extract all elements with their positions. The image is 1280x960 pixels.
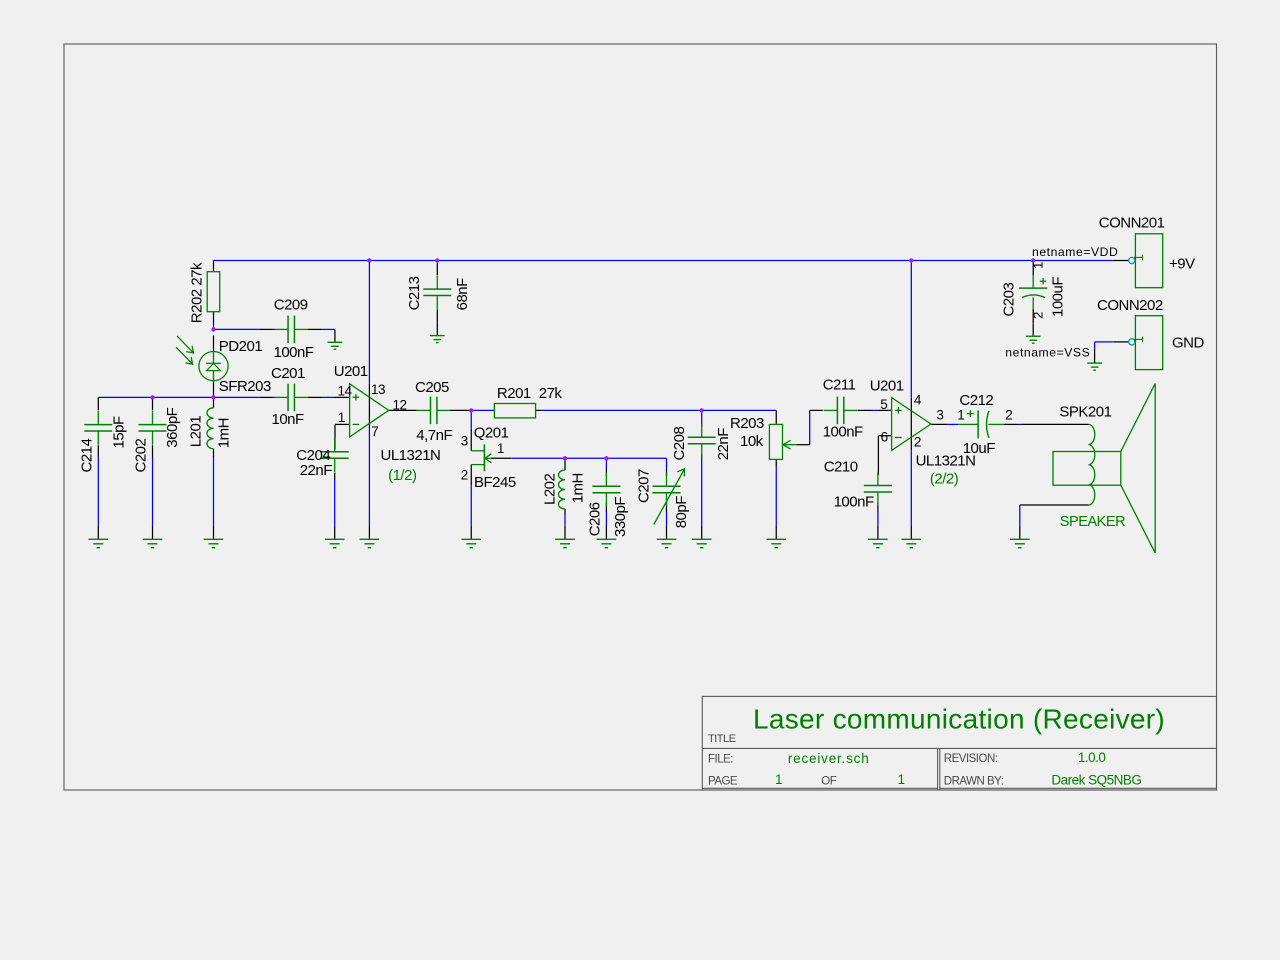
svg-text:100nF: 100nF (274, 344, 314, 361)
svg-text:Q201: Q201 (474, 424, 509, 441)
svg-text:1mH: 1mH (570, 473, 587, 503)
svg-text:7: 7 (371, 424, 378, 439)
svg-text:22nF: 22nF (300, 462, 333, 479)
svg-text:1: 1 (497, 441, 504, 456)
svg-text:330pF: 330pF (612, 497, 629, 537)
svg-text:CONN201: CONN201 (1099, 215, 1165, 232)
svg-text:100nF: 100nF (834, 494, 874, 511)
svg-text:+9V: +9V (1169, 256, 1195, 273)
svg-text:R202 27k: R202 27k (189, 262, 206, 323)
svg-text:12: 12 (393, 397, 407, 412)
svg-text:80pF: 80pF (673, 496, 690, 529)
svg-text:1: 1 (957, 407, 964, 422)
svg-text:10nF: 10nF (272, 411, 305, 428)
svg-text:C207: C207 (635, 469, 652, 503)
svg-text:15pF: 15pF (111, 416, 128, 449)
svg-text:68nF: 68nF (454, 278, 471, 311)
svg-text:GND: GND (1172, 335, 1205, 352)
svg-text:CONN202: CONN202 (1097, 297, 1163, 314)
svg-text:(2/2): (2/2) (930, 471, 959, 488)
svg-text:4,7nF: 4,7nF (416, 427, 452, 444)
svg-text:R203: R203 (730, 415, 764, 432)
svg-text:TITLE: TITLE (708, 733, 736, 745)
svg-text:3: 3 (461, 433, 468, 448)
svg-text:BF245: BF245 (474, 474, 516, 491)
svg-text:(1/2): (1/2) (388, 467, 417, 484)
svg-text:C208: C208 (671, 426, 688, 460)
svg-text:2: 2 (461, 467, 468, 482)
svg-text:2: 2 (1005, 408, 1012, 423)
svg-text:FILE:: FILE: (708, 753, 733, 765)
svg-text:3: 3 (936, 408, 943, 423)
svg-text:OF: OF (821, 775, 836, 787)
svg-text:L202: L202 (542, 473, 559, 505)
svg-text:1: 1 (898, 772, 905, 787)
svg-text:PAGE: PAGE (708, 775, 738, 787)
svg-text:receiver.sch: receiver.sch (788, 751, 870, 766)
svg-text:10uF: 10uF (963, 440, 996, 457)
svg-text:2: 2 (1031, 312, 1046, 319)
svg-text:SFR203: SFR203 (219, 378, 271, 395)
svg-text:C201: C201 (271, 365, 305, 382)
svg-text:C212: C212 (959, 392, 993, 409)
svg-text:C205: C205 (415, 379, 449, 396)
svg-text:R201: R201 (497, 385, 531, 402)
svg-text:Darek SQ5NBG: Darek SQ5NBG (1051, 773, 1141, 788)
svg-text:C209: C209 (274, 297, 308, 314)
svg-text:1.0.0: 1.0.0 (1078, 750, 1106, 765)
svg-text:PD201: PD201 (219, 338, 263, 355)
svg-text:SPEAKER: SPEAKER (1060, 514, 1125, 530)
svg-text:DRAWN BY:: DRAWN BY: (944, 775, 1004, 787)
svg-text:1: 1 (1131, 254, 1146, 261)
svg-text:C206: C206 (587, 502, 604, 536)
svg-text:C211: C211 (823, 377, 856, 394)
svg-text:C214: C214 (79, 438, 96, 472)
svg-text:100uF: 100uF (1050, 277, 1067, 317)
svg-text:100nF: 100nF (823, 424, 863, 441)
svg-text:4: 4 (914, 392, 922, 407)
svg-text:5: 5 (880, 397, 887, 412)
svg-text:13: 13 (371, 382, 385, 397)
svg-text:C203: C203 (1001, 282, 1018, 316)
svg-text:L201: L201 (188, 416, 205, 448)
svg-text:netname=VDD: netname=VDD (1032, 245, 1118, 259)
svg-text:C202: C202 (132, 438, 149, 472)
svg-text:REVISION:: REVISION: (944, 753, 998, 765)
svg-text:netname=VSS: netname=VSS (1005, 346, 1090, 360)
svg-text:U201: U201 (870, 377, 904, 394)
svg-text:360pF: 360pF (164, 407, 181, 447)
svg-text:1: 1 (338, 410, 345, 425)
svg-text:C210: C210 (824, 459, 858, 476)
svg-text:1: 1 (1131, 336, 1146, 343)
svg-text:U201: U201 (334, 363, 368, 380)
svg-text:1mH: 1mH (216, 418, 233, 448)
svg-text:SPK201: SPK201 (1059, 404, 1111, 421)
svg-text:14: 14 (338, 383, 353, 398)
svg-text:27k: 27k (539, 385, 563, 402)
svg-text:Laser communication (Receiver): Laser communication (Receiver) (753, 703, 1165, 734)
svg-text:UL1321N: UL1321N (381, 447, 441, 464)
svg-text:C213: C213 (406, 276, 423, 310)
svg-text:2: 2 (914, 434, 921, 449)
svg-text:10k: 10k (740, 433, 764, 450)
svg-text:1: 1 (1030, 262, 1045, 269)
svg-text:6: 6 (881, 430, 888, 445)
svg-text:22nF: 22nF (715, 428, 732, 461)
svg-text:1: 1 (775, 772, 782, 787)
